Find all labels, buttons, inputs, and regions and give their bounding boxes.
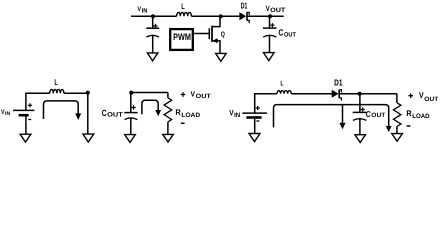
svg-text:OUT: OUT	[196, 93, 211, 100]
svg-text:L: L	[181, 2, 185, 11]
svg-text:L: L	[54, 77, 57, 87]
svg-text:C: C	[102, 108, 107, 118]
svg-text:L: L	[280, 81, 284, 88]
svg-text:D1: D1	[334, 78, 343, 88]
svg-text:R: R	[175, 108, 180, 117]
svg-text:R: R	[406, 109, 411, 118]
svg-text:IN: IN	[5, 111, 10, 117]
svg-text:OUT: OUT	[371, 112, 385, 119]
svg-text:LOAD: LOAD	[181, 112, 200, 119]
svg-text:C: C	[278, 27, 283, 37]
svg-text:V: V	[191, 90, 196, 99]
svg-text:IN: IN	[234, 112, 241, 119]
svg-text:D1: D1	[241, 0, 248, 10]
svg-text:OUT: OUT	[424, 96, 438, 103]
svg-text:Q: Q	[221, 29, 225, 38]
svg-text:IN: IN	[142, 7, 148, 14]
svg-text:LOAD: LOAD	[412, 113, 430, 120]
svg-text:PWM: PWM	[173, 31, 191, 42]
svg-text:OUT: OUT	[284, 31, 296, 38]
svg-text:C: C	[366, 109, 371, 119]
svg-text:OUT: OUT	[107, 112, 123, 119]
svg-text:OUT: OUT	[270, 7, 285, 14]
